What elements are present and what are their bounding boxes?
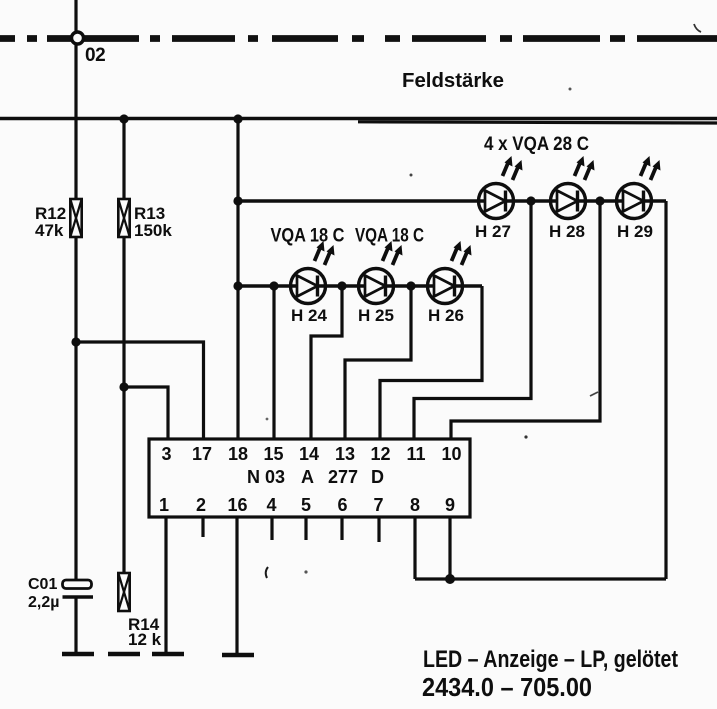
- svg-text:13: 13: [335, 444, 355, 464]
- svg-text:8: 8: [410, 495, 420, 515]
- wire LED row 1: [238, 199, 666, 202]
- node 02: [72, 32, 84, 44]
- wire pin15 drop: [272, 286, 275, 439]
- ground C01: [62, 653, 94, 655]
- svg-text:H 25: H 25: [358, 306, 394, 325]
- wire pin6 stub: [340, 517, 343, 540]
- junction row1 start: [233, 196, 242, 205]
- svg-text:4 x VQA 28 C: 4 x VQA 28 C: [484, 134, 589, 155]
- LED H27: [479, 156, 523, 219]
- wire pin11 route: [414, 201, 531, 439]
- junction pin9/return: [445, 574, 455, 584]
- wire pin10 route: [451, 201, 600, 439]
- wire rail scan doubling: [358, 122, 717, 123]
- wire bottom return to pins 8/9: [415, 577, 666, 580]
- svg-text:Feldstärke: Feldstärke: [402, 70, 504, 92]
- svg-text:4: 4: [266, 495, 276, 515]
- wire pin9 drop: [448, 517, 451, 579]
- svg-text:H 27: H 27: [475, 222, 511, 241]
- wire main horizontal rail: [0, 117, 717, 121]
- svg-text:LED – Anzeige – LP, gelötet: LED – Anzeige – LP, gelötet: [423, 646, 678, 673]
- wire pin1 to ground: [164, 517, 167, 652]
- svg-text:9: 9: [445, 495, 455, 515]
- wire pin3 route from R13: [124, 387, 168, 439]
- wire pin12 route: [380, 286, 482, 439]
- capacitor C01: [63, 580, 92, 589]
- wire pin13 route: [345, 286, 411, 439]
- LED H24: [291, 241, 335, 304]
- svg-text:VQA 18 C: VQA 18 C: [271, 226, 345, 247]
- resistor R12: [70, 199, 81, 237]
- wire C01 to ground: [74, 597, 77, 652]
- svg-text:277: 277: [328, 467, 358, 487]
- svg-text:47k: 47k: [35, 221, 64, 240]
- wire LED row 2: [238, 284, 482, 287]
- ground R14: [108, 653, 140, 655]
- wire pin16 to ground: [235, 517, 238, 653]
- svg-text:1: 1: [159, 495, 169, 515]
- svg-text:02: 02: [85, 45, 105, 66]
- junction rail/pin18: [233, 114, 242, 123]
- svg-text:D: D: [371, 467, 384, 487]
- junction H25/H26: [406, 281, 415, 290]
- svg-text:H 24: H 24: [291, 306, 327, 325]
- junction H24/H25: [337, 281, 346, 290]
- svg-text:C01: C01: [28, 576, 57, 593]
- wire dash-dot boundary line: [0, 35, 717, 42]
- svg-text:3: 3: [161, 444, 171, 464]
- wire pin4 stub: [270, 517, 273, 540]
- svg-text:18: 18: [228, 444, 248, 464]
- svg-text:2434.0 – 705.00: 2434.0 – 705.00: [422, 672, 592, 702]
- svg-text:H 26: H 26: [428, 306, 464, 325]
- junction R13/pin3: [119, 382, 128, 391]
- junction rail/R13: [119, 114, 128, 123]
- wire (scan speckles, decorative): [266, 567, 268, 578]
- junction row2/pin15: [269, 281, 278, 290]
- svg-text:15: 15: [263, 444, 283, 464]
- svg-text:H 28: H 28: [549, 222, 585, 241]
- svg-text:11: 11: [406, 444, 425, 464]
- svg-text:5: 5: [301, 495, 311, 515]
- wire pin14 route: [311, 286, 342, 439]
- wire pin5 stub: [304, 517, 307, 540]
- LED H26: [428, 241, 472, 304]
- svg-text:12: 12: [370, 444, 390, 464]
- wire pin18 branch vertical: [236, 119, 239, 439]
- LED H29: [617, 156, 661, 219]
- wire pin2 stub: [201, 517, 204, 537]
- resistor R13: [118, 199, 129, 237]
- wire vertical bus from top to C01: [74, 0, 77, 581]
- svg-text:H 29: H 29: [617, 222, 653, 241]
- svg-text:A: A: [301, 467, 314, 487]
- svg-text:7: 7: [373, 495, 383, 515]
- wire pin17 route from R12: [76, 342, 204, 439]
- junction R12/pin17: [71, 337, 80, 346]
- resistor R14: [118, 573, 129, 611]
- svg-text:2,2µ: 2,2µ: [28, 594, 59, 611]
- wire R13 branch vertical: [122, 119, 125, 574]
- wire pin8 drop: [413, 517, 416, 579]
- wire right drop from H29: [664, 201, 667, 579]
- op-amp/IC U1 N03A277D box: [149, 439, 470, 517]
- svg-text:14: 14: [299, 444, 319, 464]
- svg-text:12 k: 12 k: [128, 630, 162, 649]
- svg-text:6: 6: [337, 495, 347, 515]
- junction H27/H28: [526, 196, 535, 205]
- wire pin7 stub: [377, 517, 380, 542]
- svg-text:2: 2: [196, 495, 206, 515]
- ground pin16: [222, 654, 254, 656]
- LED H25: [359, 241, 403, 304]
- svg-text:150k: 150k: [134, 221, 172, 240]
- svg-text:17: 17: [192, 444, 212, 464]
- junction H28/H29: [595, 196, 604, 205]
- svg-text:N 03: N 03: [247, 467, 285, 487]
- ground pin1: [152, 653, 184, 655]
- svg-text:VQA 18 C: VQA 18 C: [355, 226, 424, 247]
- svg-text:10: 10: [441, 444, 461, 464]
- LED H28: [551, 156, 595, 219]
- svg-text:16: 16: [227, 495, 247, 515]
- junction row2 start: [233, 281, 242, 290]
